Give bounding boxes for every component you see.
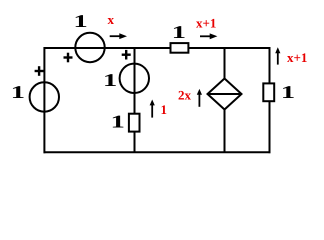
- wire right upper: [269, 47, 271, 83]
- wire diamond branch lower: [224, 109, 226, 152]
- current arrow for x: [110, 33, 127, 39]
- voltage source V3 middle: [120, 64, 149, 93]
- right branch current arrow up: [275, 47, 280, 64]
- wire right lower: [269, 101, 271, 153]
- dependent source arrow up: [197, 89, 202, 107]
- wire bottom: [44, 151, 271, 153]
- wire left: [43, 47, 45, 153]
- svg-text:1: 1: [73, 11, 87, 31]
- svg-text:x+1: x+1: [287, 50, 307, 65]
- resistor R3 right: [263, 83, 274, 101]
- svg-text:x: x: [108, 12, 115, 27]
- svg-text:1: 1: [172, 22, 186, 42]
- R1 current arrow up: [150, 100, 155, 118]
- wire middle branch upper: [134, 48, 136, 114]
- svg-text:2x: 2x: [178, 88, 192, 103]
- current arrow for x+1: [200, 33, 217, 39]
- svg-text:x+1: x+1: [196, 16, 216, 31]
- svg-text:1: 1: [161, 102, 168, 117]
- svg-text:1: 1: [103, 70, 117, 90]
- wire middle branch lower: [134, 132, 136, 153]
- dependent current source diamond: [208, 79, 242, 110]
- wire diamond branch upper: [224, 48, 226, 79]
- svg-text:1: 1: [111, 112, 125, 132]
- V3 plus sign: [122, 50, 131, 60]
- V1 plus sign: [35, 66, 44, 76]
- svg-text:1: 1: [281, 82, 295, 102]
- voltage source V1 left: [30, 82, 59, 111]
- svg-text:1: 1: [11, 82, 25, 102]
- voltage source V2 top: [75, 33, 104, 62]
- wire top: [44, 47, 271, 49]
- resistor R2 top: [171, 43, 189, 53]
- resistor R1 middle: [129, 114, 140, 132]
- V2 plus sign: [64, 53, 73, 63]
